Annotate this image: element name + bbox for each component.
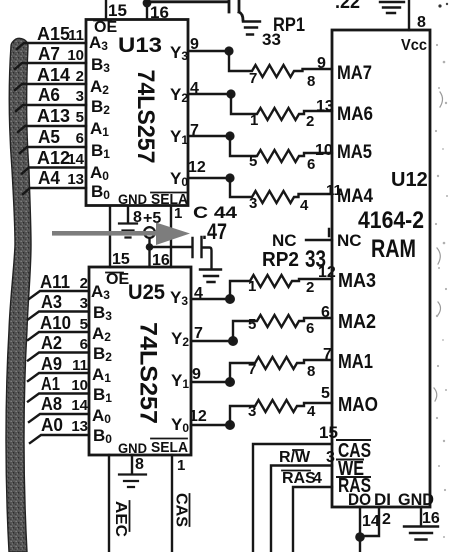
svg-text:6: 6 (76, 130, 84, 147)
svg-text:Y0: Y0 (170, 169, 188, 189)
svg-text:B0: B0 (91, 182, 110, 202)
svg-text:2: 2 (80, 275, 88, 292)
U25 OE pin label (106, 271, 129, 288)
svg-text:9: 9 (192, 366, 201, 383)
junction at U13 pin 16 top (143, 0, 152, 7)
junction U25 Y0 corner (225, 420, 235, 430)
wire A9 to U25 pin 11 (28, 354, 89, 381)
wire U25 Y1 pin 9 (191, 366, 230, 383)
wire A1 to U25 pin 10 (28, 374, 89, 402)
svg-text:4: 4 (194, 285, 203, 302)
ground at U13 pin 8 (119, 224, 137, 238)
svg-text:3: 3 (76, 88, 84, 105)
RAS label (282, 470, 316, 487)
wire DI pin 2 (360, 507, 391, 536)
resistor RP1 3-4 to MA4 (230, 178, 342, 214)
svg-text:MA3: MA3 (338, 270, 376, 292)
capacitor C44 (193, 237, 212, 268)
junction +5 / C44 tee (146, 243, 154, 251)
wire A7 to U13 pin 10 (15, 44, 86, 69)
svg-text:13: 13 (67, 171, 84, 188)
svg-text:Y0: Y0 (171, 415, 189, 435)
U13 pin 15 OE wire (106, 0, 127, 20)
svg-text:B2: B2 (93, 344, 112, 364)
svg-text:4164-2: 4164-2 (358, 207, 424, 234)
svg-text:10: 10 (67, 47, 84, 64)
svg-text:16: 16 (422, 510, 440, 527)
svg-text:2: 2 (382, 511, 391, 528)
svg-text:MA5: MA5 (337, 142, 372, 163)
address bus band (6, 38, 31, 552)
scan noise specks right edge (435, 44, 448, 538)
wire U13 Y2 pin 4 (188, 80, 231, 97)
wire AEC from U25 bottom (108, 455, 110, 552)
svg-text:MA7: MA7 (337, 63, 372, 84)
svg-text:15: 15 (112, 251, 130, 268)
Vcc wire pin 8 (409, 0, 426, 31)
svg-text:A1: A1 (90, 119, 109, 139)
svg-text:8: 8 (307, 73, 315, 90)
U13 OE pin label (94, 19, 117, 36)
annotation arrow (gray) (52, 223, 190, 246)
svg-text:B1: B1 (93, 385, 112, 405)
svg-text:9: 9 (190, 36, 199, 53)
svg-text:MA6: MA6 (337, 104, 373, 125)
svg-text:15: 15 (108, 1, 127, 20)
ground below bypass capacitor (243, 22, 260, 35)
ground at U12 pin 16 (404, 527, 438, 540)
svg-text:3: 3 (249, 195, 257, 212)
svg-text:B3: B3 (91, 55, 110, 75)
svg-text:14: 14 (67, 151, 84, 168)
wire SELA / CAS from U25 pin 1 (172, 455, 185, 552)
svg-text:9: 9 (317, 55, 326, 72)
wire A10 to U25 pin 5 (28, 313, 89, 340)
U25 GND SELA labels (118, 439, 188, 457)
svg-text:1: 1 (177, 457, 185, 474)
junction Y3 corner (224, 46, 233, 55)
svg-text:SELA: SELA (151, 439, 188, 456)
wire A2 to U25 pin 6 (28, 333, 89, 361)
U25 GND pin 8 stub (132, 455, 144, 473)
wire U13 Y0 pin 12 (188, 159, 230, 178)
resistor RP2 7-8 to MA1 (230, 346, 332, 382)
wire DO pin 14 (360, 507, 380, 552)
AEC label (rotated) (112, 501, 130, 537)
svg-text:74LS257: 74LS257 (132, 70, 159, 164)
svg-text:RAM: RAM (371, 235, 416, 263)
resistor RP2 3-4 to MA0 (230, 385, 332, 425)
svg-text:U12: U12 (391, 169, 428, 191)
U13 GND pin 8 stub (128, 206, 142, 226)
wire A6 to U13 pin 3 (16, 85, 86, 111)
U13 pin 16 Vcc wire (147, 0, 169, 22)
resistor RP2 5-6 to MA2 (233, 304, 332, 341)
svg-text:MA2: MA2 (338, 311, 376, 333)
svg-text:.22: .22 (335, 0, 360, 12)
wire A15 to U13 pin 11 (17, 24, 86, 49)
wire A0 to U25 pin 13 (30, 415, 89, 443)
svg-text:B2: B2 (91, 97, 110, 117)
svg-text:1: 1 (174, 205, 182, 222)
svg-text:A12: A12 (37, 148, 70, 168)
svg-text:MAO: MAO (338, 394, 378, 416)
svg-text:5: 5 (76, 109, 84, 126)
svg-text:12: 12 (188, 159, 206, 176)
junction U25 Y2 corner (228, 336, 238, 346)
junction U25 Y1 corner (225, 377, 235, 387)
U12 DO DI GND labels (348, 490, 434, 509)
wire U25 Y3 pin 4 (191, 285, 230, 302)
svg-text:8: 8 (307, 363, 315, 380)
CAS label (rotated) (173, 493, 190, 527)
svg-text:A0: A0 (41, 415, 63, 435)
resistor RP1 1-2 to MA6 (231, 94, 334, 130)
svg-text:GND: GND (118, 191, 147, 207)
wire U25 Y0 pin 12 (189, 408, 230, 425)
wire U13 SELA pin 1 to U25 (171, 205, 182, 267)
wire top rail to bypass cap (147, 0, 227, 3)
mux U25 74LS257 box (89, 267, 191, 455)
svg-text:RP2: RP2 (262, 249, 299, 271)
svg-text:A2: A2 (41, 333, 62, 353)
U12 GND pin 16 stub (421, 507, 440, 527)
wire A4 to U13 pin 13 (23, 168, 86, 194)
svg-text:4: 4 (307, 403, 316, 420)
svg-text:Y3: Y3 (170, 288, 188, 308)
resistor RP1 5-6 to MA5 (230, 136, 333, 173)
ground at top for second cap (380, 2, 404, 13)
junction U25 Y3 corner (225, 294, 235, 304)
svg-text:DI: DI (374, 490, 391, 509)
svg-text:14: 14 (71, 397, 88, 414)
svg-text:Y1: Y1 (171, 371, 189, 391)
svg-text:5: 5 (248, 316, 256, 333)
R/W label (279, 449, 311, 466)
svg-text:33: 33 (262, 30, 281, 49)
svg-text:8: 8 (417, 14, 426, 31)
svg-text:74LS257: 74LS257 (135, 322, 162, 424)
svg-text:13: 13 (71, 418, 88, 435)
U25 output pin labels (170, 288, 189, 435)
wire U13 Y1 pin 7 (188, 122, 230, 139)
svg-text:A6: A6 (38, 85, 60, 105)
svg-text:A8: A8 (41, 394, 62, 414)
svg-text:4: 4 (190, 80, 199, 97)
svg-text:6: 6 (80, 336, 88, 353)
svg-text:7: 7 (190, 122, 199, 139)
wire CAS pin 15 (253, 423, 338, 552)
svg-text:B1: B1 (91, 141, 110, 161)
svg-text:A1: A1 (92, 365, 111, 385)
svg-text:MA1: MA1 (338, 351, 373, 373)
svg-text:10: 10 (315, 142, 333, 159)
svg-text:MA4: MA4 (337, 186, 373, 207)
svg-text:RAS: RAS (282, 470, 316, 487)
U25 input pin labels (91, 282, 112, 446)
svg-text:A0: A0 (90, 163, 109, 183)
svg-text:B0: B0 (93, 426, 112, 446)
junction Y2 corner (226, 89, 235, 98)
svg-text:11: 11 (68, 27, 84, 44)
svg-text:4: 4 (300, 197, 309, 214)
svg-text:8: 8 (135, 456, 144, 473)
wire A11 to U25 pin 2 (29, 272, 89, 299)
svg-text:A1: A1 (41, 374, 60, 394)
svg-text:A11: A11 (40, 272, 70, 292)
svg-text:U25: U25 (128, 281, 165, 304)
svg-text:A2: A2 (90, 77, 109, 97)
NC wire (272, 229, 332, 250)
svg-text:3: 3 (248, 403, 256, 420)
svg-text:2: 2 (76, 68, 84, 85)
svg-text:GND: GND (398, 490, 434, 509)
svg-text:B3: B3 (93, 303, 112, 323)
svg-text:A10: A10 (40, 313, 71, 333)
svg-text:Y1: Y1 (170, 127, 188, 147)
svg-text:NC: NC (272, 231, 297, 250)
svg-text:7: 7 (249, 70, 257, 87)
+5 supply circle node (144, 227, 155, 238)
svg-text:10: 10 (71, 377, 88, 394)
ground at U25 pin 8 (119, 475, 146, 488)
svg-text:15: 15 (319, 423, 338, 442)
resistor RP2 1-2 to MA3 (230, 264, 336, 299)
svg-text:14: 14 (362, 513, 380, 530)
svg-text:A15: A15 (37, 24, 70, 44)
svg-text:1: 1 (248, 278, 256, 295)
RAM U12 4164-2 box (332, 30, 430, 507)
svg-text:CAS: CAS (173, 493, 190, 527)
wire U13 Y3 pin 9 (188, 36, 229, 53)
wire A13 to U13 pin 5 (18, 106, 86, 132)
svg-text:GND: GND (118, 440, 147, 456)
U13 input pin labels (89, 33, 110, 202)
wire U13 bottom to U25 pin 15 (110, 206, 130, 268)
svg-text:3: 3 (80, 295, 88, 312)
svg-text:A4: A4 (38, 168, 60, 188)
wire RAS pin 4 (293, 470, 332, 552)
svg-text:A0: A0 (92, 406, 111, 426)
speck top right (438, 4, 441, 7)
svg-text:A7: A7 (38, 44, 60, 64)
wire to C44 (150, 246, 193, 248)
junction Y0 corner (225, 173, 234, 182)
svg-text:U13: U13 (118, 34, 162, 57)
U12 WE label (337, 458, 364, 480)
svg-text:A3: A3 (89, 33, 108, 53)
bypass capacitor .22 at U13 (229, 0, 243, 20)
svg-text:A13: A13 (37, 106, 70, 126)
svg-text:5: 5 (321, 385, 330, 402)
mux U13 74LS257 box (86, 20, 188, 206)
svg-text:11: 11 (72, 357, 88, 374)
wire R/W to WE pin 3 (271, 449, 335, 552)
U12 RAS label (337, 475, 371, 497)
svg-text:NC: NC (337, 231, 362, 250)
svg-text:2: 2 (306, 279, 314, 296)
ground below C44 (200, 270, 221, 283)
svg-text:5: 5 (249, 153, 257, 170)
junction DO/DI (355, 532, 365, 542)
svg-text:5: 5 (80, 316, 88, 333)
svg-text:A5: A5 (38, 127, 60, 147)
svg-text:16: 16 (150, 3, 169, 22)
U12 CAS label (337, 440, 371, 462)
svg-text:OE: OE (106, 271, 129, 288)
svg-text:A3: A3 (41, 292, 62, 312)
svg-text:A14: A14 (37, 65, 70, 85)
wire U25 Y2 pin 7 (191, 325, 233, 342)
svg-text:R/W: R/W (279, 449, 311, 466)
svg-text:A9: A9 (41, 354, 62, 374)
svg-text:AEC: AEC (112, 501, 129, 537)
svg-text:1: 1 (250, 112, 258, 129)
svg-text:Y3: Y3 (170, 43, 188, 63)
wire +5 to U25 pin 16 (150, 238, 170, 269)
svg-text:7: 7 (194, 325, 203, 342)
svg-text:SELA: SELA (151, 191, 188, 208)
wire A5 to U13 pin 6 (20, 127, 86, 153)
wire A14 to U13 pin 2 (15, 65, 86, 90)
wire A12 to U13 pin 14 (22, 148, 86, 174)
svg-text:7: 7 (248, 361, 256, 378)
junction Y1 corner (225, 131, 234, 140)
svg-text:2: 2 (306, 113, 314, 130)
wire A3 to U25 pin 3 (28, 292, 89, 320)
svg-text:Y2: Y2 (170, 85, 188, 105)
svg-text:A2: A2 (92, 324, 111, 344)
svg-text:Vcc: Vcc (401, 37, 427, 54)
svg-text:6: 6 (321, 304, 330, 321)
svg-text:Y2: Y2 (171, 329, 189, 349)
wire A8 to U25 pin 14 (29, 394, 89, 422)
svg-text:.47: .47 (202, 219, 227, 244)
U13 output pin labels (170, 43, 188, 189)
scan arc marks right edge (434, 92, 443, 401)
resistor RP1 7-8 to MA7 (229, 51, 332, 90)
svg-text:6: 6 (306, 320, 314, 337)
U13 GND SELA labels (118, 191, 188, 208)
svg-text:3: 3 (326, 449, 335, 466)
